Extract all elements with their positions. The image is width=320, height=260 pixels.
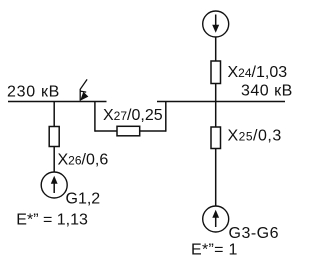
svg-text:X25/0,3: X25/0,3: [228, 128, 282, 145]
wire X27 horizontal: [95, 130, 166, 132]
svg-text:X24/1,03: X24/1,03: [228, 64, 288, 81]
generator G3-G6: [203, 206, 229, 232]
bus 340 kV (right horizontal bus): [157, 101, 285, 103]
svg-text:E*”= 1: E*”= 1: [191, 241, 238, 258]
fault lightning symbol: [80, 79, 88, 100]
reactor X24: [211, 61, 221, 84]
wire X25 to G3-G6: [215, 149, 217, 207]
svg-text:X27/0,25: X27/0,25: [103, 107, 163, 124]
system source (top circle, down arrow): [203, 11, 229, 37]
wire X26 to G1,2: [53, 147, 55, 173]
generator G1,2: [41, 172, 67, 198]
svg-text:E*” = 1,13: E*” = 1,13: [16, 212, 88, 229]
svg-text:230 кВ: 230 кВ: [7, 84, 60, 101]
svg-text:X26/0,6: X26/0,6: [58, 152, 109, 169]
wire X24 to bus340 to X25: [215, 84, 217, 128]
svg-text:G3-G6: G3-G6: [229, 225, 280, 242]
wire bus230 down to X27 branch: [94, 102, 96, 132]
reactor X27: [117, 126, 140, 136]
bus 230 kV (left horizontal bus): [8, 101, 107, 103]
wire source to X24: [215, 37, 217, 61]
wire X27 branch up to bus340: [165, 102, 167, 132]
wire bus230 to X26: [53, 102, 55, 127]
svg-text:340 кВ: 340 кВ: [241, 83, 293, 100]
reactor X26: [49, 127, 59, 147]
svg-text:G1,2: G1,2: [66, 191, 101, 208]
reactor X25: [211, 127, 221, 149]
